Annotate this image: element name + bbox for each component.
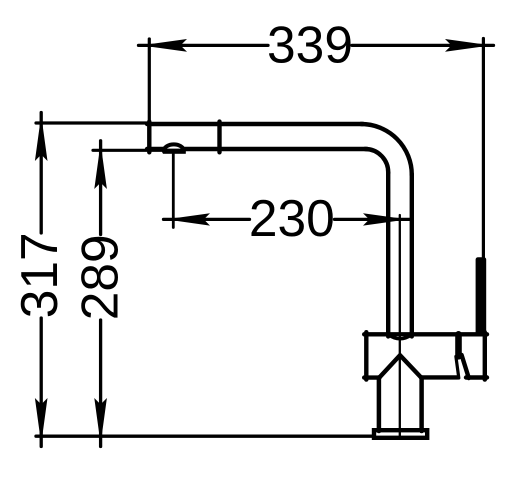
aerator dome: [164, 144, 184, 150]
base column right wall: [419, 378, 424, 432]
aerator plate: [163, 149, 186, 154]
dim 339 line left segment: [139, 44, 269, 47]
dim 339 right extension line: [482, 39, 485, 260]
dim 339 left extension line: [148, 39, 151, 123]
dim 230 right arrowhead: [363, 213, 408, 225]
dim 317 top extension line: [36, 121, 148, 124]
dim 289 bottom arrowhead: [94, 398, 107, 444]
dim 289 line bottom segment: [99, 320, 102, 447]
base flange: [374, 430, 427, 438]
dim 230 left arrowhead: [166, 213, 210, 225]
dim 289 line top segment: [99, 141, 102, 235]
svg-text:339: 339: [267, 16, 353, 74]
pipe socket arc: [388, 335, 412, 339]
dim 339 left arrowhead: [141, 39, 187, 52]
dim 339 right arrowhead: [445, 39, 491, 52]
dim 339 line right segment: [352, 44, 494, 47]
dim 317 bottom arrowhead: [35, 398, 48, 444]
base column left wall: [377, 378, 382, 432]
svg-text:230: 230: [249, 189, 335, 247]
spout outer bend arc: [361, 124, 412, 175]
dim 289 top arrowhead: [94, 143, 107, 189]
dim 289 top extension line: [93, 149, 163, 152]
dim 230 left extension line: [172, 154, 175, 228]
handle socket diagonal: [462, 355, 469, 378]
riser pipe outer wall: [410, 174, 414, 336]
dim 317 line top segment: [40, 113, 43, 234]
svg-text:289: 289: [70, 234, 128, 320]
dim 317 top arrowhead: [35, 115, 48, 161]
body chevron joint: [379, 355, 422, 378]
spray head body: [147, 122, 367, 153]
lever handle bar: [476, 257, 487, 335]
dim 317 line bottom segment: [40, 318, 43, 447]
handle socket vertical: [455, 334, 462, 356]
riser pipe inner wall: [386, 173, 390, 337]
faucet centerline: [399, 215, 401, 436]
bottom extension line shared 317 289: [36, 435, 374, 438]
spout inner bend arc: [365, 149, 388, 173]
faucet body outline: [364, 332, 487, 379]
dim 230 line left segment: [164, 218, 250, 221]
svg-text:317: 317: [10, 232, 68, 318]
dim 230 line right segment: [335, 218, 411, 221]
handle socket sliver: [456, 357, 459, 379]
